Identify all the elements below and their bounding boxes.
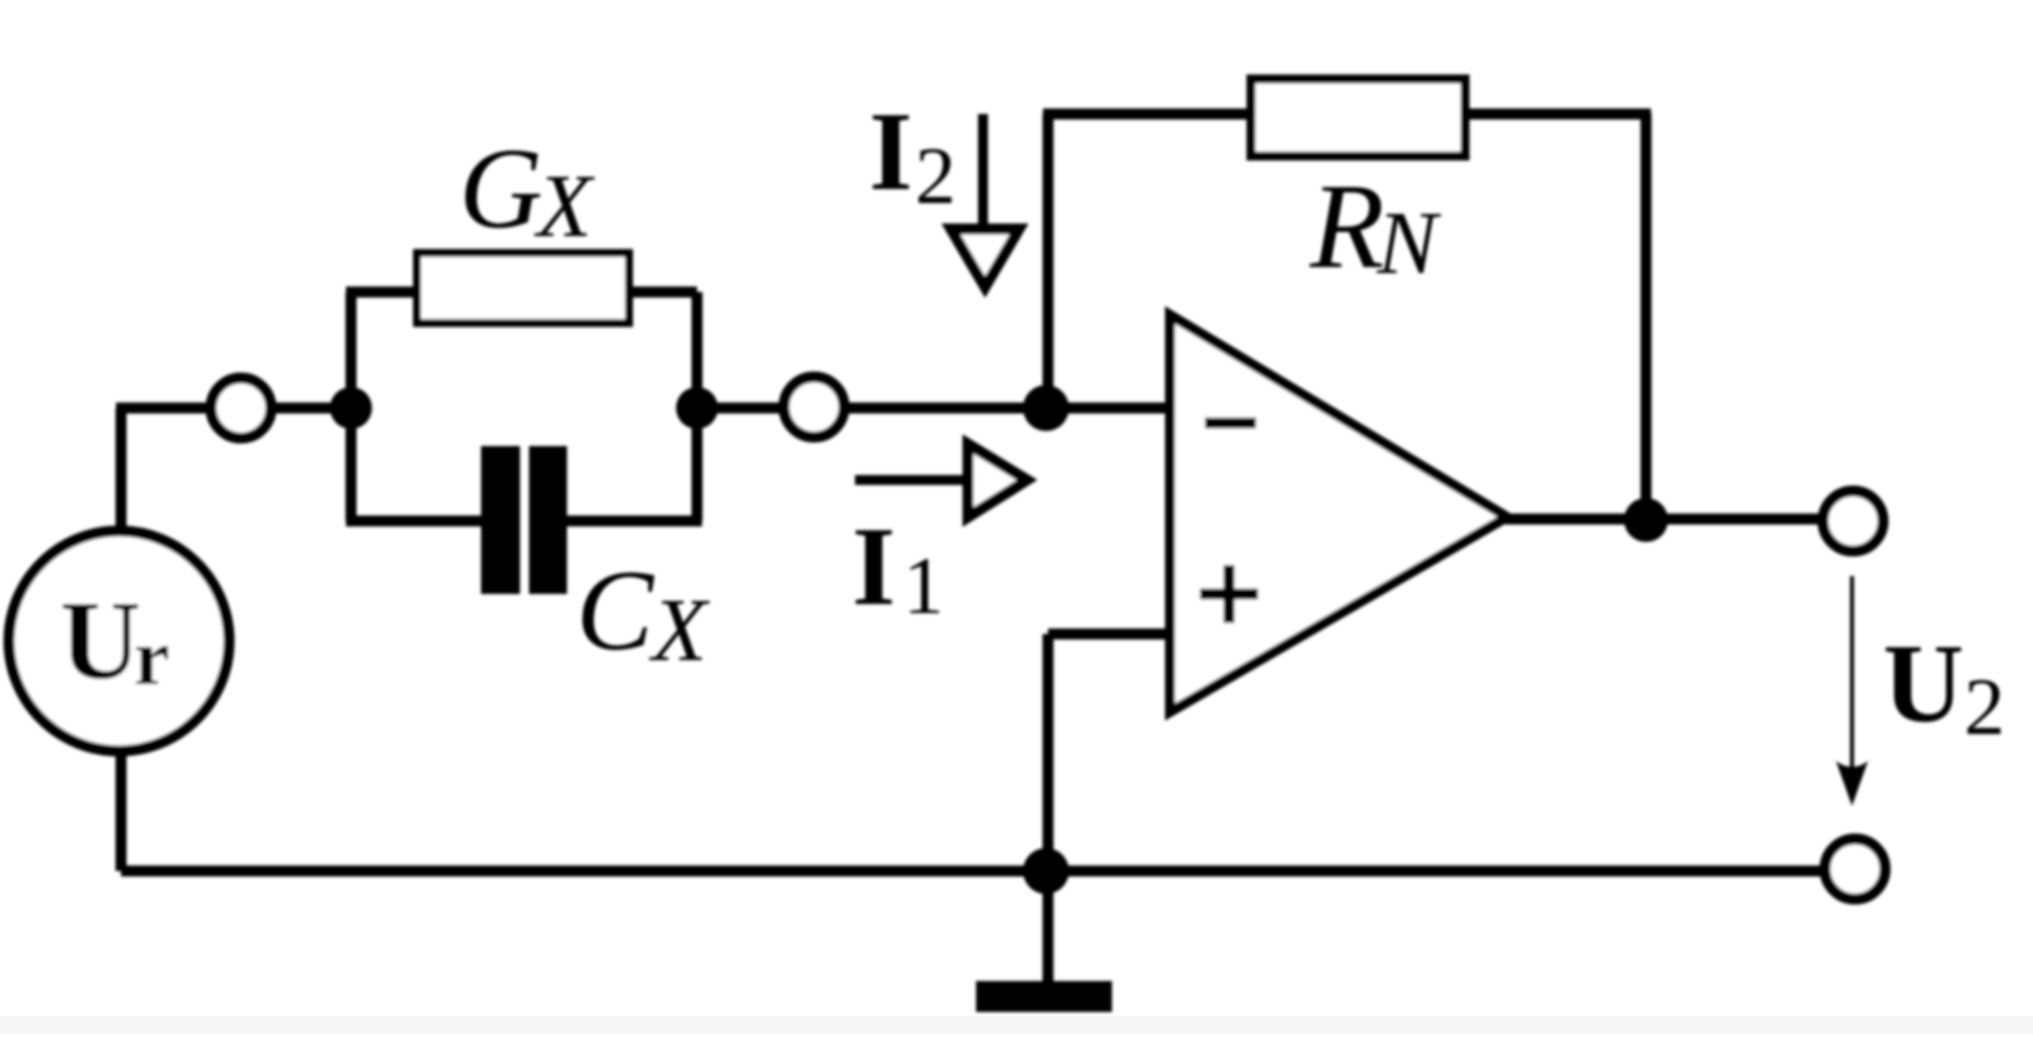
svg-text:X: X bbox=[534, 157, 595, 256]
node: block right junction bbox=[676, 387, 718, 429]
voltage arrow U2 bbox=[1836, 576, 1868, 806]
wire: plus input vertical down to ground bbox=[1043, 634, 1054, 981]
node: output junction bbox=[1624, 498, 1668, 542]
svg-text:I: I bbox=[869, 90, 913, 214]
op-amp plus sign bbox=[1200, 565, 1258, 623]
wire: block top rail bbox=[346, 287, 697, 298]
node: inverting input junction bbox=[1023, 385, 1069, 431]
label U2 bbox=[1883, 622, 2005, 752]
svg-text:2: 2 bbox=[915, 130, 956, 221]
wire: op-amp output row bbox=[1505, 514, 1853, 525]
svg-text:R: R bbox=[1309, 159, 1385, 294]
svg-text:G: G bbox=[459, 125, 543, 253]
label GX bbox=[459, 125, 595, 256]
svg-text:U: U bbox=[60, 579, 141, 703]
wire: feedback top rail bbox=[1043, 109, 1651, 120]
wire: feedback left vertical bbox=[1043, 114, 1054, 408]
svg-text:I: I bbox=[852, 505, 896, 629]
wire: block left vertical bbox=[346, 292, 357, 521]
label Ur bbox=[60, 579, 170, 703]
terminal: input right open circle bbox=[784, 377, 844, 437]
wire: main input row y=408 left of block bbox=[116, 403, 351, 414]
svg-text:2: 2 bbox=[1964, 661, 2005, 752]
label I1 bbox=[852, 505, 944, 631]
ground symbol bbox=[976, 981, 1112, 1012]
wire: block bottom rail left part bbox=[346, 516, 510, 527]
svg-text:C: C bbox=[576, 547, 655, 675]
wire: source top lead and left vertical bbox=[116, 408, 127, 871]
svg-text:1: 1 bbox=[903, 540, 944, 631]
current arrow I2 bbox=[951, 114, 1019, 287]
wire: feedback right vertical bbox=[1641, 114, 1652, 520]
voltage source Ur circle bbox=[9, 531, 229, 751]
node: block left junction bbox=[330, 387, 372, 429]
terminal: output bottom open circle bbox=[1825, 839, 1885, 899]
current arrow I1 bbox=[855, 444, 1027, 517]
terminal: input left open circle bbox=[211, 378, 271, 438]
svg-text:N: N bbox=[1376, 194, 1442, 293]
op-amp U1 triangle bbox=[1170, 315, 1507, 712]
wire: bottom return rail bbox=[121, 866, 1855, 877]
resistor GX body bbox=[417, 253, 629, 323]
svg-text:U: U bbox=[1883, 622, 1964, 746]
terminal: output top open circle bbox=[1823, 491, 1883, 551]
wire: plus input lead bbox=[1048, 629, 1170, 640]
resistor RN body bbox=[1251, 79, 1465, 156]
wire: block right vertical bbox=[692, 292, 703, 521]
label RN bbox=[1309, 159, 1442, 294]
svg-text:r: r bbox=[134, 614, 170, 702]
label CX bbox=[576, 547, 710, 680]
node: ground rail junction bbox=[1023, 848, 1069, 894]
label I2 bbox=[869, 90, 956, 221]
wire: main row from block to op-amp minus input bbox=[697, 403, 1170, 414]
op-amp minus sign bbox=[1205, 418, 1256, 429]
wire: block bottom rail right part bbox=[545, 516, 702, 527]
svg-text:X: X bbox=[649, 581, 710, 680]
capacitor CX plates bbox=[481, 446, 567, 594]
